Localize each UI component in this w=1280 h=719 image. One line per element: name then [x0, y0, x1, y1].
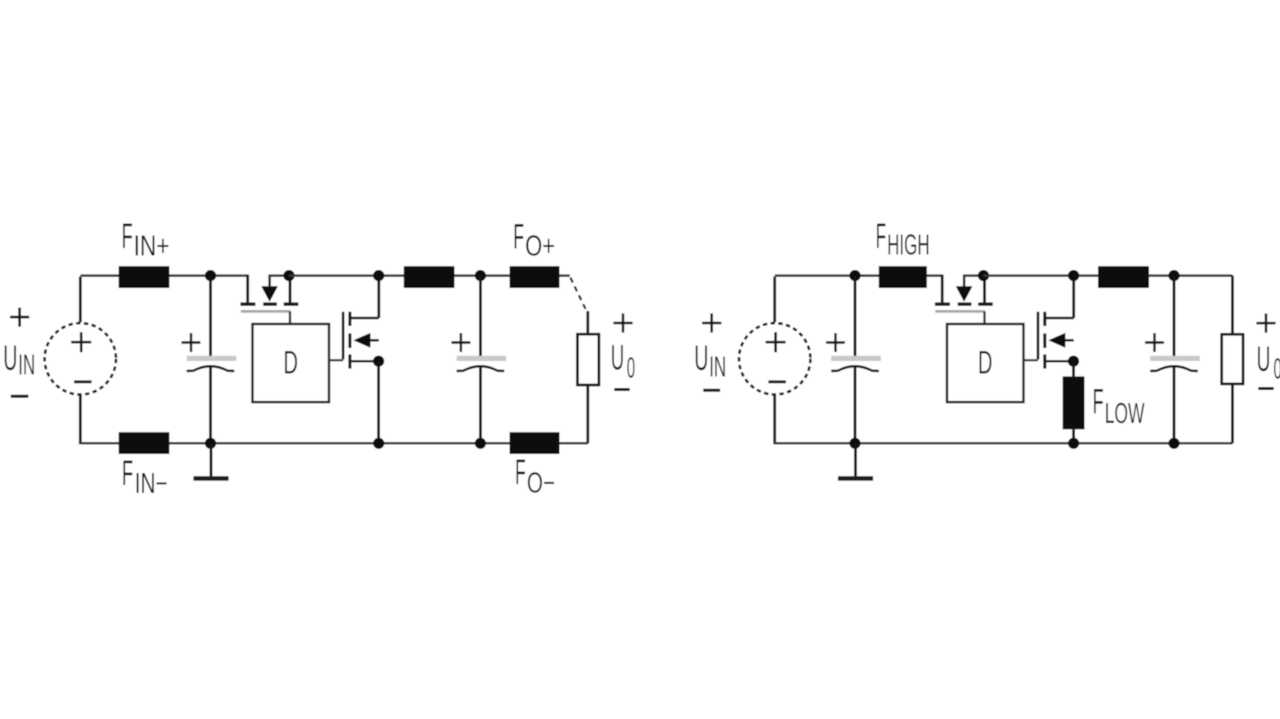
ground (right) [854, 443, 857, 476]
label + of U_O (left) [613, 313, 632, 332]
label - of U_IN (right) [703, 389, 720, 392]
voltage source U_IN (left) [45, 323, 116, 394]
wire: load bottom stub (right) [1231, 384, 1234, 443]
inductor/fuse element (unlabeled, left output) [404, 266, 455, 288]
node dot Q2 source drop at bottom rail [373, 438, 384, 449]
node A dot (top, input cap) [205, 270, 216, 281]
dashed wire to load (left) [570, 278, 586, 312]
node dot output cap bottom (right) [1168, 438, 1179, 449]
wire: top rail mid segment (left) [289, 274, 570, 277]
node dot output cap top (right) [1168, 270, 1179, 281]
svg-text:U: U [1257, 340, 1271, 379]
driver block D (left) [253, 324, 330, 402]
svg-text:D: D [978, 345, 993, 381]
ground (left) [210, 443, 213, 476]
load resistor U_O (right) [1222, 334, 1243, 384]
node B dot (bottom, input cap) [205, 438, 216, 449]
svg-text:F: F [876, 217, 887, 256]
node dot Q2 drain at rail [373, 270, 384, 281]
fuse F_IN- [119, 432, 170, 454]
svg-text:IN: IN [18, 349, 35, 381]
wire: top rail mid segment (right) [984, 274, 1233, 277]
node dot output cap top (left) [475, 270, 486, 281]
MOSFET Q1 (series high-side switch, left) with body diode [246, 275, 249, 304]
label + of U_O (right) [1256, 314, 1275, 333]
label - of U_O (right) [1258, 387, 1273, 390]
svg-text:IN−: IN− [135, 468, 168, 500]
fuse F_IN+ [119, 266, 170, 288]
wire: bottom rail (right circuit) [774, 442, 1233, 445]
wire: load top stub (left) [586, 311, 589, 334]
node dot input cap top (right) [849, 270, 860, 281]
wire: load top stub (right) [1231, 276, 1234, 335]
wire: source top to top rail (right) [773, 277, 776, 323]
svg-text:0: 0 [1274, 354, 1280, 386]
node dot Q4 drain at rail [1068, 270, 1079, 281]
MOSFET Q3 (series high-side switch, right) with body diode [941, 275, 944, 304]
node dot output cap bottom (left) [475, 438, 486, 449]
capacitor C2 (output, left) [479, 276, 482, 357]
MOSFET Q4 (low side, right) [1024, 359, 1039, 361]
svg-text:F: F [122, 454, 133, 493]
label - of U_O (left) [614, 388, 629, 391]
capacitor C1 (input, left) [209, 276, 212, 357]
capacitor C3 (input, right) [854, 276, 857, 357]
svg-text:F: F [122, 217, 133, 256]
node dot input cap bottom (right) [849, 438, 860, 449]
svg-text:F: F [515, 453, 526, 492]
inductor/fuse element (unlabeled, right output) [1098, 266, 1149, 288]
svg-text:F: F [513, 217, 524, 256]
label + of U_IN (right) [702, 313, 721, 332]
MOSFET Q2 (crowbar, left) [329, 359, 343, 361]
voltage source U_IN (right) [739, 323, 810, 394]
wire: source top to top rail (left) [79, 277, 82, 323]
svg-text:LOW: LOW [1105, 398, 1145, 430]
svg-text:O+: O+ [525, 230, 555, 262]
fuse F_LOW [1063, 376, 1085, 429]
wire: source bottom to bottom rail (right) [773, 395, 776, 444]
svg-text:U: U [3, 339, 17, 378]
wire: bottom rail (left circuit) [79, 442, 588, 445]
driver block D (right) [947, 324, 1024, 402]
wire: load bottom stub (left) [586, 385, 589, 443]
fuse F_O+ [510, 266, 560, 288]
svg-text:O−: O− [527, 468, 555, 500]
label - of U_IN (left) [11, 395, 29, 398]
capacitor C4 (output, right) [1173, 276, 1176, 357]
svg-text:0: 0 [627, 352, 635, 384]
wire: F_LOW to bottom rail [1072, 429, 1075, 443]
svg-text:U: U [611, 339, 624, 378]
svg-text:D: D [283, 345, 298, 381]
node dot at Q3 source / rail [978, 270, 989, 281]
node dot at Q1 source / rail [283, 270, 294, 281]
svg-text:HIGH: HIGH [887, 230, 930, 262]
node dot F_LOW at bottom rail [1068, 438, 1079, 449]
svg-text:F: F [1093, 382, 1104, 421]
label + of U_IN (left) [10, 308, 29, 327]
wire: source bottom to bottom rail (left) [79, 395, 82, 444]
svg-text:IN+: IN+ [134, 231, 170, 263]
wire: top rail left segment [80, 274, 247, 277]
load resistor U_O (left) [577, 334, 599, 385]
fuse F_HIGH [879, 266, 927, 288]
wire: top rail left segment (right) [775, 274, 943, 277]
svg-text:U: U [694, 339, 708, 378]
fuse F_O- [510, 432, 560, 454]
svg-text:IN: IN [709, 352, 726, 384]
